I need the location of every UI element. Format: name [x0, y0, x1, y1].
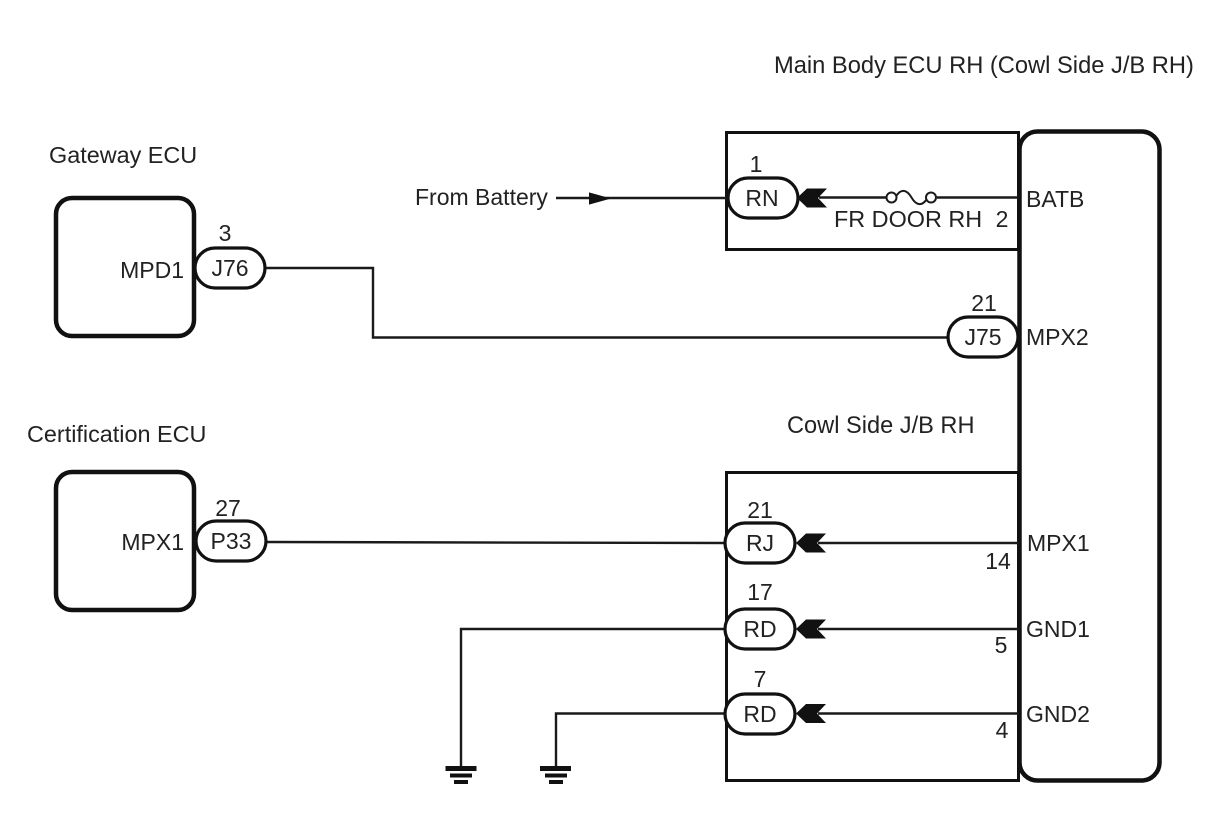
wire RD(7) to ground 2 [556, 714, 726, 767]
svg-text:5: 5 [995, 632, 1008, 658]
svg-text:MPX1: MPX1 [1027, 530, 1090, 556]
connector arrow at RD 7 [796, 704, 826, 723]
svg-text:GND2: GND2 [1026, 701, 1090, 727]
ground 2 [540, 769, 571, 783]
junction block box top (Main Body ECU RH section) [727, 133, 1019, 250]
svg-text:BATB: BATB [1026, 186, 1084, 212]
svg-text:FR DOOR RH: FR DOOR RH [834, 206, 982, 232]
connector oval RN [728, 178, 798, 218]
svg-text:MPD1: MPD1 [120, 257, 184, 283]
wire J76 to J75 (corner route) [264, 268, 950, 338]
junction block box bottom (Cowl Side J/B RH section) [727, 473, 1019, 781]
connector oval J75 [948, 317, 1018, 357]
svg-text:J76: J76 [211, 255, 248, 281]
connector arrow at RN [797, 189, 827, 208]
svg-text:2: 2 [996, 206, 1009, 232]
svg-text:GND1: GND1 [1026, 616, 1090, 642]
wire RJ to MPX1 [818, 542, 1019, 544]
wire RD(7) to GND2 [818, 712, 1019, 714]
svg-text:RJ: RJ [746, 530, 774, 556]
svg-text:J75: J75 [964, 324, 1001, 350]
connector arrow at RD 17 [796, 620, 826, 639]
wire RN to BATB with circuit breaker [819, 196, 886, 198]
wire RD(17) to GND1 [818, 628, 1019, 630]
svg-text:From Battery: From Battery [415, 184, 548, 210]
svg-text:Certification ECU: Certification ECU [27, 421, 206, 447]
svg-text:4: 4 [996, 717, 1009, 743]
svg-text:1: 1 [750, 151, 763, 177]
svg-text:Main Body ECU RH (Cowl Side J/: Main Body ECU RH (Cowl Side J/B RH) [774, 53, 1194, 79]
svg-text:21: 21 [747, 497, 773, 523]
svg-text:14: 14 [985, 548, 1011, 574]
ECU block Main Body ECU RH (large rounded rect) [1020, 132, 1160, 781]
svg-text:Gateway ECU: Gateway ECU [49, 142, 197, 168]
svg-text:P33: P33 [211, 528, 252, 554]
connector oval P33 [196, 521, 266, 561]
arrowhead From Battery [589, 192, 611, 204]
svg-text:3: 3 [219, 220, 232, 246]
circuit breaker FR DOOR RH (two circles + wave) [887, 193, 897, 203]
ground 1 [446, 769, 477, 783]
svg-text:RD: RD [743, 701, 776, 727]
connector arrow at RJ [796, 534, 826, 553]
svg-text:RD: RD [743, 616, 776, 642]
svg-text:MPX2: MPX2 [1026, 324, 1089, 350]
connector oval J76 [195, 248, 265, 288]
ECU block Gateway ECU [56, 198, 194, 336]
wire P33 to RJ [265, 542, 726, 543]
svg-text:21: 21 [971, 290, 997, 316]
svg-text:7: 7 [754, 666, 767, 692]
connector oval RJ [725, 523, 795, 563]
wire RD(17) to ground 1 [461, 629, 726, 766]
svg-text:MPX1: MPX1 [121, 529, 184, 555]
wire From Battery arrow line [556, 197, 728, 199]
svg-text:Cowl Side J/B RH: Cowl Side J/B RH [787, 413, 975, 439]
connector oval RD (pin 17) [725, 609, 795, 649]
svg-text:RN: RN [745, 185, 778, 211]
svg-text:27: 27 [215, 495, 241, 521]
ECU block Certification ECU [56, 472, 194, 610]
connector oval RD (pin 7) [725, 694, 795, 734]
svg-text:17: 17 [747, 579, 773, 605]
